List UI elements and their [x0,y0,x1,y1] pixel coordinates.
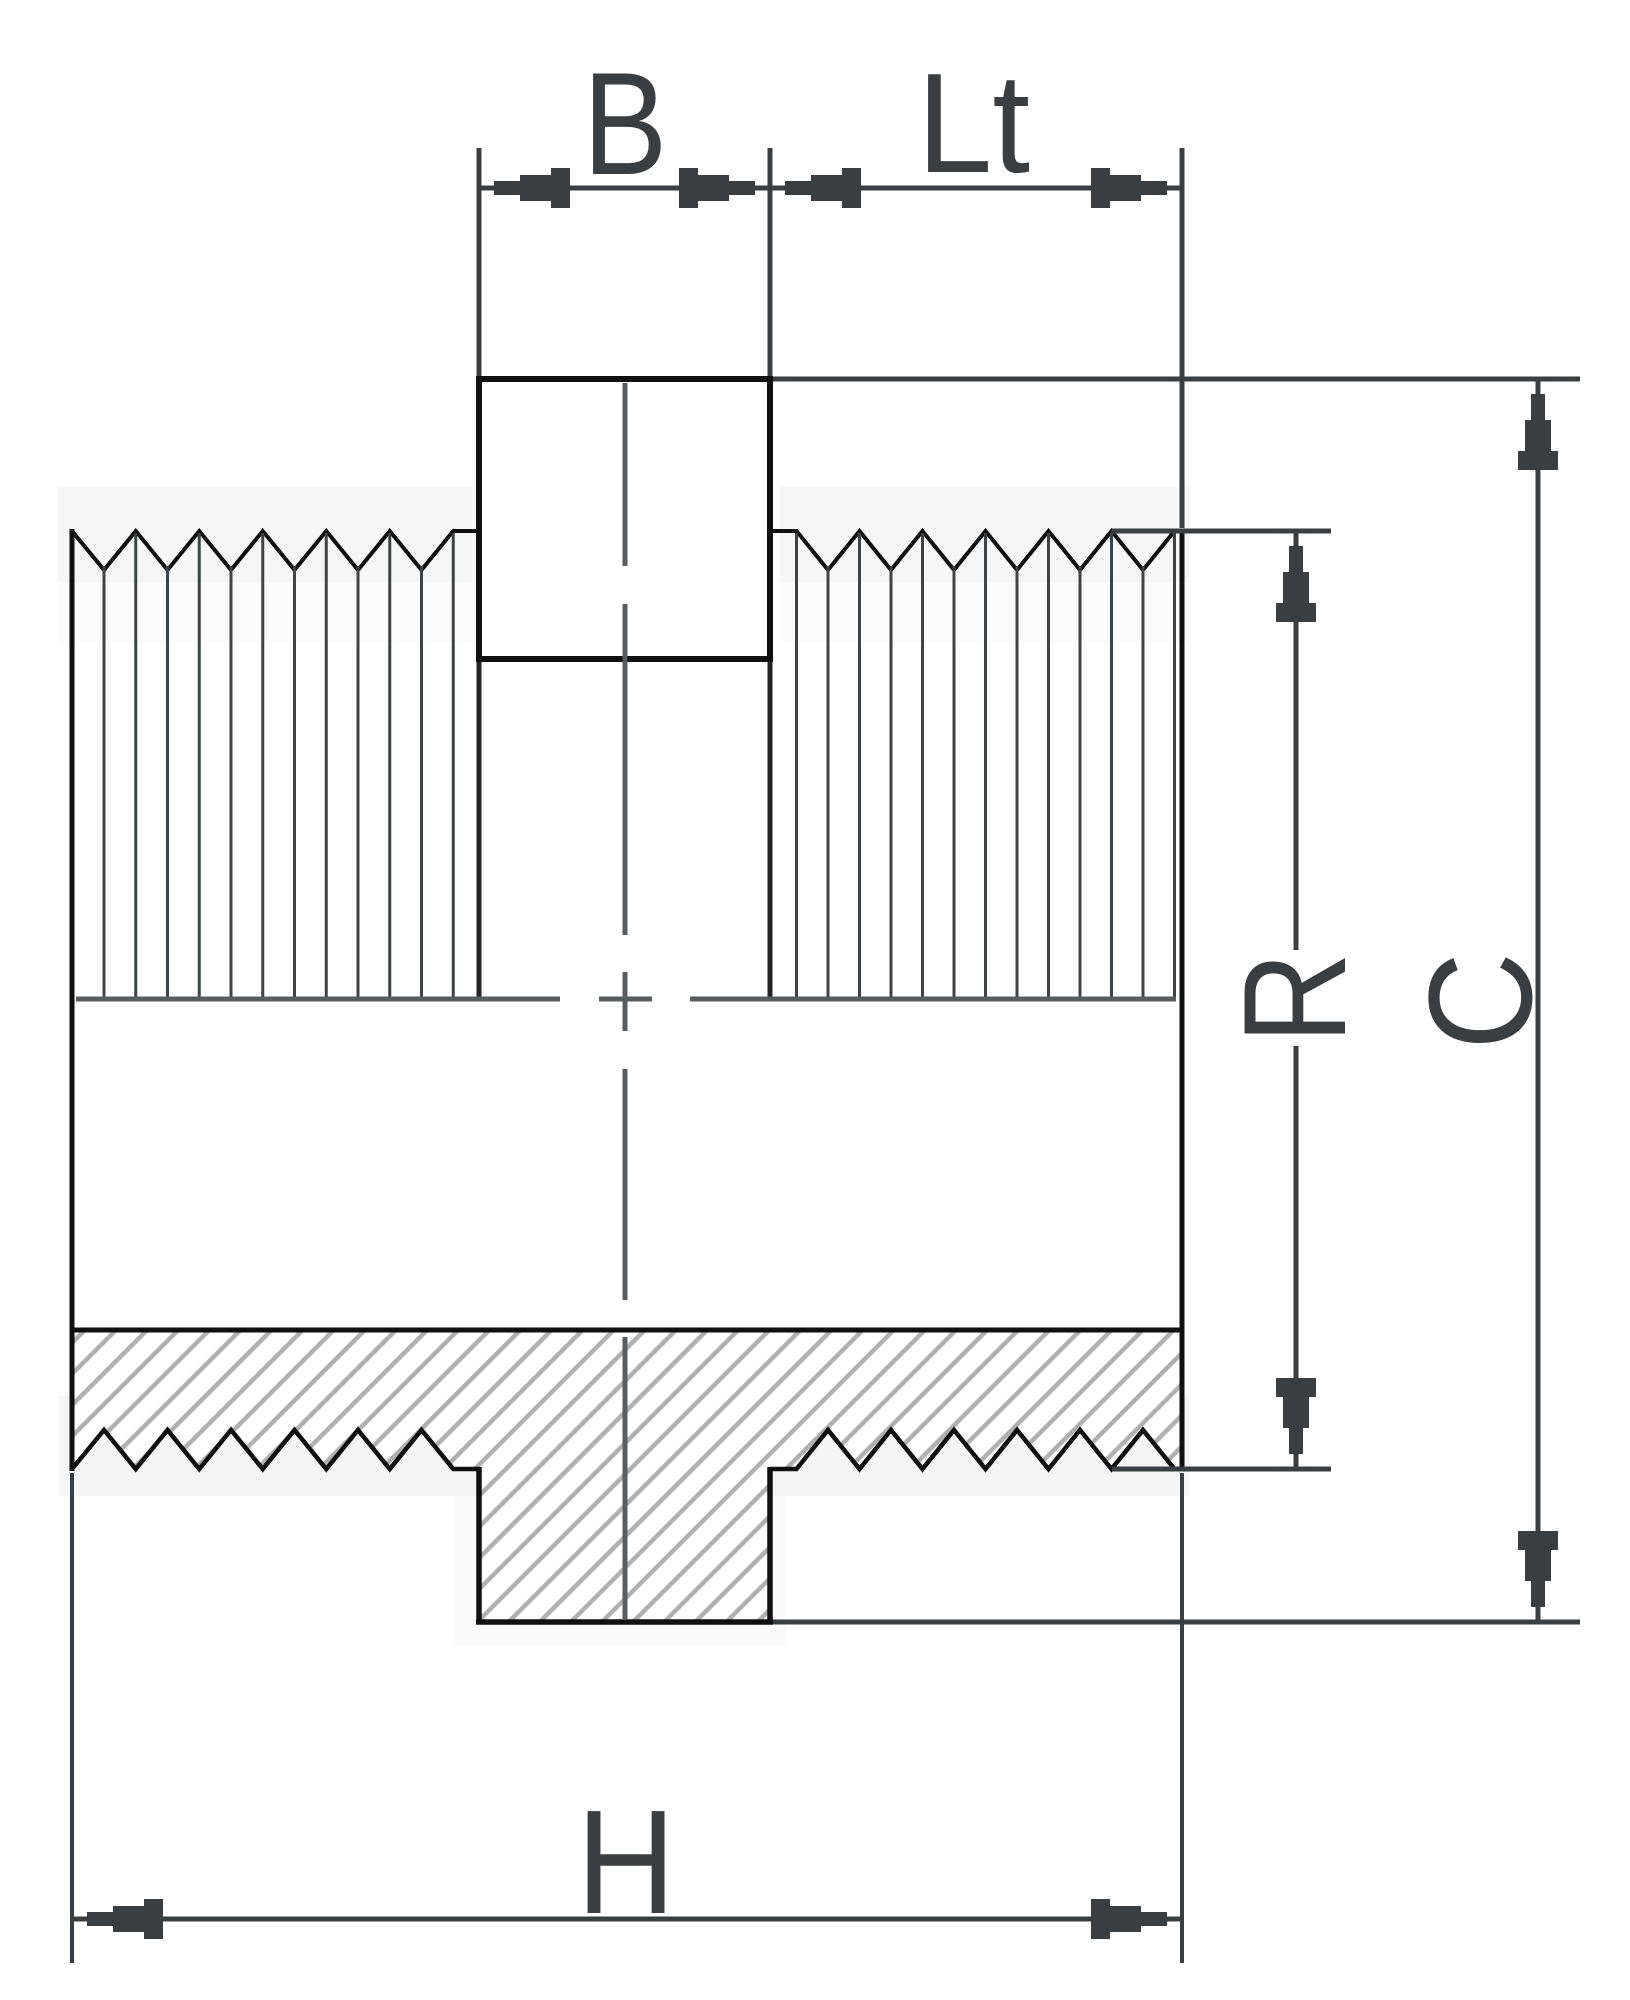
arrow H left [87,1899,163,1939]
center column (lower boss) outline [476,1467,482,1622]
arrow Lt right [1091,168,1167,208]
extension line H left [70,1473,74,1963]
dimension line C [1536,379,1541,1622]
top-left thread crest zigzag [72,531,479,570]
hatched section region [72,1330,1182,1622]
svg-text:B: B [583,42,668,205]
part left edge [70,529,75,1471]
extension line crest for R [1112,529,1332,534]
part right edge [1180,529,1185,1471]
extension line root for R [1112,1467,1331,1472]
svg-text:H: H [576,1780,675,1945]
arrow R top [1276,546,1316,622]
arrow R bottom [1276,1378,1316,1454]
hub side edges below collar [477,659,482,999]
horizontal centerline [76,997,1176,1002]
extension line B/Lt shared [768,148,773,376]
left thread lines [104,533,453,999]
arrow C bottom [1518,1531,1558,1607]
extension line H right [1180,1473,1184,1963]
arrow H right [1091,1899,1167,1939]
right thread lines [797,533,1175,999]
vertical centerline [623,383,628,1620]
dimension line R [1294,531,1299,950]
extension line top for C [773,377,1580,382]
bottom-left thread root zigzag [72,1430,479,1469]
dimension line H [72,1917,1182,1922]
arrow C top [1518,394,1558,470]
arrow B right [679,168,755,208]
bottom-right thread root zigzag [770,1430,1182,1469]
extension line Lt right [1180,148,1185,528]
svg-text:C: C [1398,952,1562,1050]
svg-text:Lt: Lt [917,44,1030,203]
arrow Lt left [785,168,861,208]
collar rectangle (top boss) [479,379,770,659]
arrow B left [494,168,570,208]
extension line bottom for C [773,1620,1580,1625]
faint scan halo bands [58,487,1190,1646]
top-right thread crest zigzag [770,531,1182,570]
section top line (bore) [70,1328,1184,1333]
svg-text:R: R [1213,952,1376,1044]
extension line B left [477,148,482,376]
dimension line B + Lt [479,186,1182,191]
